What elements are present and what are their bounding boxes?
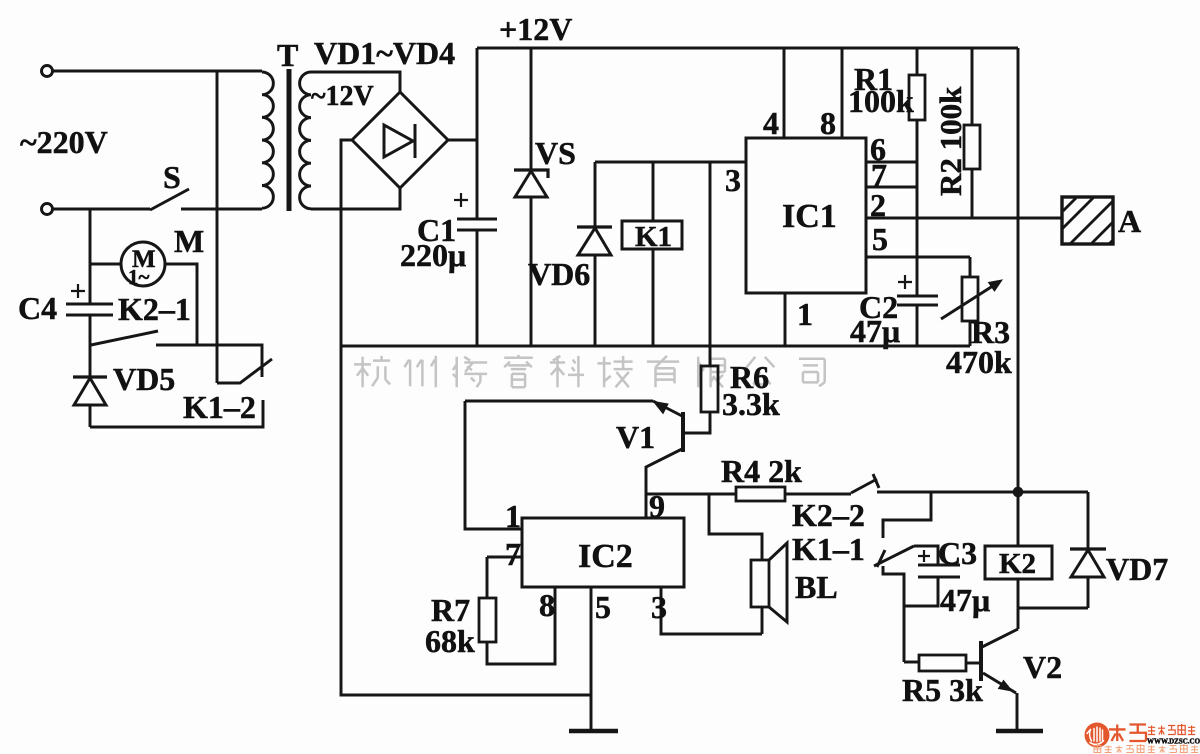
terminal bottom-left <box>42 204 53 215</box>
IC2 pin7 <box>487 556 522 559</box>
svg-text:A: A <box>1118 203 1141 239</box>
svg-text:V2: V2 <box>1023 649 1062 685</box>
transformer core <box>287 69 292 211</box>
svg-text:7: 7 <box>505 536 521 572</box>
svg-text:100k: 100k <box>848 83 914 119</box>
bridge rectifier VD1~VD4 <box>352 92 448 188</box>
switch S blade <box>150 189 189 210</box>
svg-text:68k: 68k <box>425 623 475 659</box>
svg-text:IC1: IC1 <box>782 198 837 235</box>
IC1 pin 8 <box>841 48 844 138</box>
ground rail <box>341 345 970 348</box>
svg-text:M: M <box>174 223 204 259</box>
switch K2-2 <box>851 479 877 493</box>
wire mains top <box>53 70 262 73</box>
svg-text:1: 1 <box>505 498 521 534</box>
diode VD7 <box>1087 492 1090 549</box>
wire K1-2 vertical feed <box>216 71 219 383</box>
bottom left return wire <box>341 346 591 695</box>
svg-text:VD7: VD7 <box>1106 551 1168 587</box>
relay coil K2 <box>985 546 1052 579</box>
transformer secondary coil <box>300 72 311 209</box>
svg-text:470k: 470k <box>946 344 1012 380</box>
svg-text:5: 5 <box>595 589 611 625</box>
svg-text:VS: VS <box>535 135 576 171</box>
svg-text:R5 3k: R5 3k <box>902 672 983 708</box>
terminal box A <box>1062 197 1113 244</box>
svg-text:47μ: 47μ <box>850 313 900 349</box>
svg-text:C4: C4 <box>18 290 57 326</box>
capacitor C4 <box>66 304 113 315</box>
IC1 <box>746 138 866 293</box>
capacitor C3 <box>918 565 960 577</box>
+12V rail <box>477 47 1018 50</box>
ground (IC2) <box>569 729 618 734</box>
svg-text:K2–1: K2–1 <box>118 291 191 327</box>
IC2 pin5 <box>590 587 593 731</box>
capacitor C1 <box>457 219 497 230</box>
wire to speaker <box>709 494 762 560</box>
wire C4 to K2-1 <box>89 315 92 345</box>
IC1 pin 6 <box>866 161 917 164</box>
diode VD6 <box>594 162 597 227</box>
svg-text:220μ: 220μ <box>400 237 466 273</box>
resistor R6 <box>709 162 712 366</box>
IC1 pin 1 <box>784 293 787 346</box>
junction dot <box>1013 487 1024 498</box>
wire down to C4 <box>89 209 92 304</box>
svg-text:IC2: IC2 <box>578 538 633 575</box>
svg-text:4: 4 <box>763 105 779 141</box>
capacitor C2 <box>897 296 938 305</box>
svg-text:VD5: VD5 <box>113 361 175 397</box>
svg-text:K1–1: K1–1 <box>792 531 865 567</box>
wire R4 row <box>646 493 736 496</box>
resistor R5 <box>904 661 919 664</box>
svg-text:3: 3 <box>725 162 741 198</box>
wire secondary top <box>311 72 400 92</box>
svg-text:T: T <box>277 37 298 73</box>
potentiometer R3 <box>969 257 972 277</box>
watermark 杭州将睿科技有限公司 <box>354 355 825 387</box>
wire V1 emitter to IC2 pin1 <box>465 401 653 529</box>
transistor V1 <box>681 412 685 452</box>
resistor R4 <box>736 487 785 501</box>
wire bridge right to +12V <box>448 139 477 142</box>
transformer T primary coil <box>262 72 273 208</box>
svg-text:8: 8 <box>539 587 555 623</box>
IC2 <box>522 518 684 587</box>
svg-text:K1: K1 <box>635 221 672 253</box>
IC1 pin 4 <box>783 48 786 138</box>
svg-text:C3: C3 <box>938 535 977 571</box>
wire C3 branch <box>883 492 931 538</box>
switch K1-1 <box>874 546 914 566</box>
terminal top-left <box>42 66 53 77</box>
svg-text:3.3k: 3.3k <box>722 386 780 422</box>
ground (V2) <box>996 729 1043 733</box>
svg-text:47μ: 47μ <box>940 582 990 618</box>
wire S to primary <box>181 208 262 211</box>
svg-text:K2: K2 <box>999 548 1036 580</box>
right bus vertical <box>1017 48 1020 546</box>
resistor R1 <box>916 48 919 75</box>
svg-text:3: 3 <box>651 589 667 625</box>
svg-text:WWW.DZSC.COM: WWW.DZSC.COM <box>1147 738 1200 746</box>
svg-text:8: 8 <box>820 105 836 141</box>
svg-text:~220V: ~220V <box>20 124 108 160</box>
svg-text:2: 2 <box>870 187 886 223</box>
switch K2-1 <box>91 331 158 345</box>
transistor V2 <box>979 641 983 681</box>
svg-text:5: 5 <box>872 221 888 257</box>
bridge diode symbol <box>384 125 413 157</box>
wire motor right <box>165 264 197 346</box>
wire K2-1 to K1-2 contact <box>156 345 262 377</box>
IC1 pin 2 wire to A <box>866 217 1062 220</box>
svg-text:+12V: +12V <box>499 11 572 47</box>
svg-text:VD1~VD4: VD1~VD4 <box>314 35 455 71</box>
resistor R2 <box>971 48 974 125</box>
diode VD5 <box>89 345 92 377</box>
svg-text:K1–2: K1–2 <box>183 389 256 425</box>
speaker BL <box>751 560 769 607</box>
motor M <box>121 242 165 286</box>
svg-text:1~: 1~ <box>128 265 150 289</box>
zener VS <box>530 48 533 170</box>
logo 维库电子市场网 <box>1085 723 1200 753</box>
wire +12V riser <box>476 48 479 219</box>
svg-text:1: 1 <box>797 296 813 332</box>
svg-text:V1: V1 <box>616 419 655 455</box>
wire bridge left to rail <box>341 140 352 346</box>
svg-text:S: S <box>163 159 181 195</box>
svg-text:VD6: VD6 <box>528 256 590 292</box>
svg-text:R4 2k: R4 2k <box>721 453 802 489</box>
IC1 pin 7 <box>866 186 917 189</box>
IC2 pin3 <box>661 587 762 634</box>
wire bottom left loop <box>90 400 263 427</box>
wire secondary bottom <box>311 188 400 209</box>
wire IC1 pin3 <box>595 161 746 164</box>
IC1 pin 5 wire <box>866 256 970 259</box>
switch K1-2 <box>217 359 272 383</box>
svg-text:K2–2: K2–2 <box>792 497 865 533</box>
svg-text:~12V: ~12V <box>311 81 374 112</box>
wire motor left <box>90 263 121 266</box>
svg-text:BL: BL <box>795 569 838 605</box>
wire mains bottom to S <box>53 208 150 211</box>
svg-text:R2 100k: R2 100k <box>933 86 968 196</box>
resistor R7 <box>486 557 489 598</box>
relay coil K1 <box>652 162 655 221</box>
